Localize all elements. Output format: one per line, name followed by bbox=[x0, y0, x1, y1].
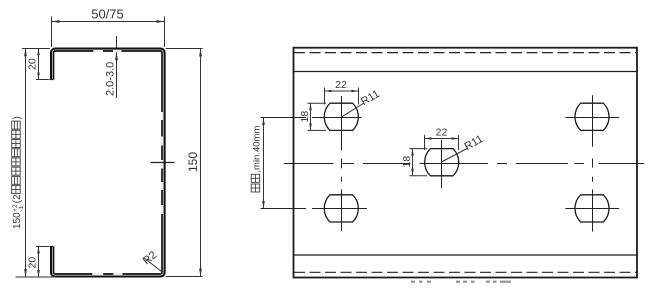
dim 22 (hole H2) bbox=[425, 127, 459, 151]
hole H1 (top-left) bbox=[324, 103, 358, 130]
dim 18 (hole H1) bbox=[299, 103, 326, 130]
svg-text:R11: R11 bbox=[359, 88, 382, 108]
radius callout R11 (hole H1) bbox=[341, 88, 382, 117]
hole H4 centerlines bbox=[565, 95, 619, 167]
dim 20 (bottom lip) bbox=[27, 247, 50, 278]
bottom hidden dashed line bbox=[294, 271, 637, 273]
dim 50/75 (top width) bbox=[52, 7, 165, 48]
plate outline bbox=[294, 48, 638, 278]
svg-text:22: 22 bbox=[436, 127, 448, 139]
C-channel inner contour (sheet thickness line) bbox=[50, 51, 162, 274]
hole H5 centerlines bbox=[565, 177, 619, 232]
dim 18 (hole H2) bbox=[401, 149, 427, 176]
svg-text:R11: R11 bbox=[463, 133, 486, 153]
radius callout R2 bbox=[141, 249, 162, 271]
svg-text:(2: (2 bbox=[12, 194, 23, 203]
svg-text:): ) bbox=[12, 116, 23, 119]
web center tick mark bbox=[151, 162, 175, 164]
radius callout R11 (hole H2) bbox=[442, 133, 486, 162]
C-channel profile outer contour bbox=[51, 49, 165, 277]
svg-text:,min.40mm: ,min.40mm bbox=[252, 126, 263, 173]
svg-text:150: 150 bbox=[186, 152, 200, 172]
hole H3 (bottom-left) bbox=[324, 195, 358, 222]
caption fragment (faint, cut off) bbox=[411, 281, 511, 283]
svg-text:50/75: 50/75 bbox=[91, 7, 124, 22]
svg-text:-1: -1 bbox=[18, 206, 25, 212]
svg-text:R2: R2 bbox=[141, 249, 159, 267]
svg-text:18: 18 bbox=[299, 111, 311, 123]
top hidden dashed line bbox=[294, 52, 637, 54]
dim 20 (top lip) bbox=[27, 48, 50, 79]
svg-text:150: 150 bbox=[12, 212, 23, 229]
svg-text:2.0-3.0: 2.0-3.0 bbox=[105, 62, 117, 96]
main horizontal centerline bbox=[284, 163, 644, 165]
svg-text:18: 18 bbox=[401, 156, 413, 168]
dim 150 (right side, rotated) bbox=[166, 49, 203, 277]
svg-text:20: 20 bbox=[27, 58, 39, 70]
dim 22 (hole H1) bbox=[325, 79, 359, 105]
dim adjustable min.40mm (left of plate, rotated) bbox=[251, 118, 265, 209]
svg-text:20: 20 bbox=[27, 257, 39, 269]
hole H5 (bottom-right) bbox=[575, 195, 609, 222]
top fold line bbox=[294, 71, 637, 73]
profile inner-line centerline breaks (white gaps) bbox=[92, 50, 163, 275]
hole H4 (top-right) bbox=[575, 103, 609, 130]
thickness callout 2.0-3.0 bbox=[105, 36, 119, 98]
hole H3 centerlines bbox=[261, 190, 368, 232]
hole H1 centerlines bbox=[261, 96, 362, 182]
bottom fold line bbox=[294, 254, 637, 256]
svg-text:22: 22 bbox=[335, 79, 347, 91]
hole H2 vertical centerline bbox=[441, 140, 443, 189]
dim 150 with tolerance (left side, rotated) bbox=[12, 48, 56, 277]
hole H2 (center) bbox=[425, 149, 459, 176]
